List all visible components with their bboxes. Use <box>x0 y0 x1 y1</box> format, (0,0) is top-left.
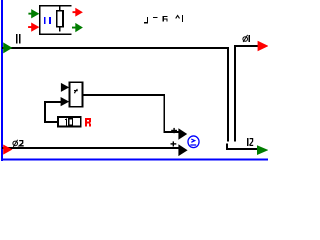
wire: i2 corner stub (vertical) <box>226 143 228 150</box>
value label 10 <box>65 118 73 126</box>
summer plus sign input 2 <box>171 141 177 146</box>
blue current-marker bars inside U1 <box>44 17 51 24</box>
label R (red) <box>85 118 91 126</box>
U2 input-2 arrowhead <box>61 97 70 106</box>
summer plus sign input 1 <box>171 128 177 133</box>
node phi1: red output arrow at right edge <box>258 41 269 52</box>
U2 input-1 arrowhead (dangling) <box>61 83 69 92</box>
summer U3 circle (blue) <box>188 136 199 148</box>
node phi2: red input arrow on left frame <box>3 145 12 155</box>
label i2 <box>247 138 248 146</box>
U1 right-bottom green output arrow <box>72 23 83 32</box>
sigma glyph inside summer <box>190 139 196 145</box>
resistor symbol inside U1 <box>59 6 61 32</box>
diagram frame left edge (blue) <box>1 0 3 161</box>
U1 left-bottom red input arrow <box>28 23 39 32</box>
wire: vertical A (i1 net down right side) <box>227 47 229 142</box>
wire: U2 output to the right <box>83 94 179 133</box>
wire: phi1 horizontal stub to right edge <box>234 45 258 47</box>
product glyph inside U2 <box>74 89 78 93</box>
gain block "10" (R) outline <box>57 116 81 128</box>
node i2: green output arrow at right edge <box>257 145 268 155</box>
U1 right-top red output arrow <box>73 8 83 17</box>
label phi1 <box>243 35 248 42</box>
wire: gain output up to U2 input 2 <box>44 101 61 123</box>
label phi2 <box>13 140 18 147</box>
wire: i2 horizontal to right edge <box>226 148 258 150</box>
block U1 (resistor component model), open on right side <box>39 5 72 35</box>
wire: vertical B (phi1 net down right side) <box>234 45 236 141</box>
wire: net i1 horizontal from left frame to right corner <box>2 47 229 49</box>
summer input-2 arrowhead <box>178 144 187 156</box>
product block U2 outline <box>70 82 83 107</box>
title text "u - R ^ I" (u = R * i) <box>144 16 167 24</box>
node i1: green input arrow on left frame <box>3 42 12 53</box>
diagram frame bottom edge (blue) <box>1 159 268 161</box>
U1 left-top green input arrow <box>28 9 39 18</box>
summer input-1 arrowhead <box>178 128 187 140</box>
label i1 <box>16 34 20 44</box>
wire: net phi2 horizontal from left frame to summer <box>2 147 179 149</box>
